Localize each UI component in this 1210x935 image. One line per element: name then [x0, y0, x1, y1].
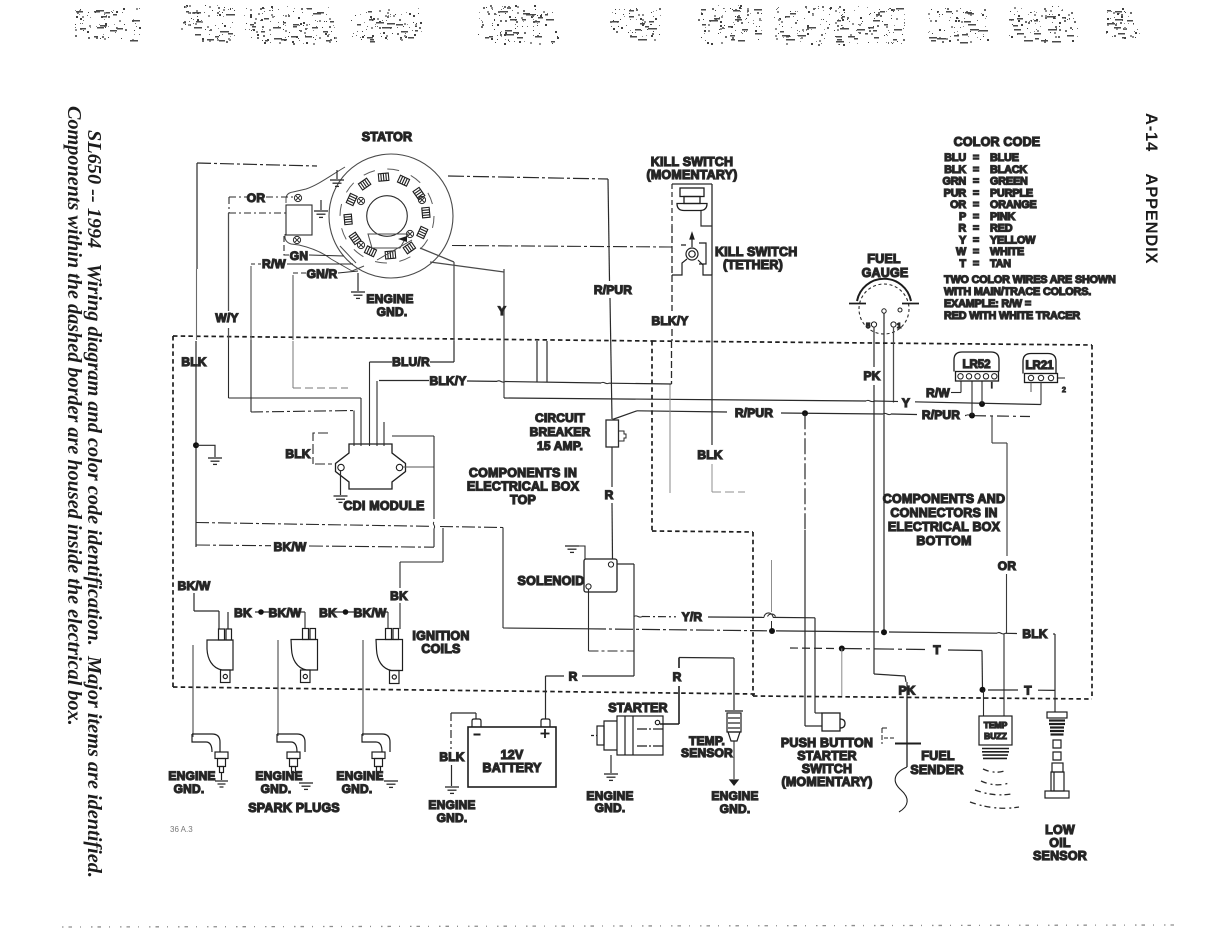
svg-text:Y: Y	[959, 234, 967, 246]
wire BK/W to coil1	[194, 593, 228, 629]
svg-text:BLK: BLK	[181, 355, 206, 369]
svg-text:GN: GN	[290, 249, 308, 263]
circuit breaker tab	[619, 431, 627, 441]
wire R/W in box to CDI pin	[251, 340, 354, 412]
kill switch momentary top wire	[672, 183, 712, 185]
wire BLK bus long	[588, 629, 1055, 712]
svg-text:ENGINE: ENGINE	[366, 292, 413, 306]
coil bus segments with dots	[255, 611, 388, 613]
wire CDI right down	[392, 436, 435, 547]
fuel gauge pins	[871, 308, 902, 327]
svg-text:(MOMENTARY): (MOMENTARY)	[781, 775, 872, 789]
wire starter to temp sensor	[679, 657, 734, 660]
svg-text:ORANGE: ORANGE	[990, 199, 1037, 211]
svg-text:GND.: GND.	[437, 811, 468, 825]
junction dot coil bus 1	[258, 609, 264, 615]
svg-text:=: =	[973, 187, 979, 199]
kill switch tether symbol	[672, 233, 712, 275]
wire CDI ear to right vertical	[403, 466, 434, 468]
svg-text:TOP: TOP	[510, 493, 536, 507]
svg-text:OR: OR	[247, 191, 266, 205]
svg-text:GND.: GND.	[174, 782, 205, 796]
ground CDI	[334, 471, 348, 502]
svg-text:BLU: BLU	[944, 152, 966, 164]
ground starter	[604, 755, 618, 780]
wire down to BLK bus left	[503, 528, 588, 629]
svg-text:=: =	[973, 199, 979, 211]
kill switch momentary button	[677, 188, 707, 211]
svg-text:PUSH BUTTON: PUSH BUTTON	[781, 736, 873, 750]
wire PK from fuel gauge pin 5	[874, 327, 906, 682]
svg-text:Y/R: Y/R	[682, 610, 703, 624]
svg-text:TEMP: TEMP	[984, 720, 1008, 730]
spark plug 1	[192, 734, 228, 787]
svg-text:BOTTOM: BOTTOM	[916, 534, 971, 548]
svg-text:BK: BK	[319, 606, 337, 620]
svg-text:(TETHER): (TETHER)	[723, 258, 783, 272]
ground left BLK	[196, 445, 222, 464]
CDI module body	[336, 444, 406, 489]
svg-text:COLOR CODE: COLOR CODE	[954, 135, 1041, 149]
connector LR52	[954, 352, 999, 381]
svg-text:PURPLE: PURPLE	[990, 187, 1033, 199]
svg-text:R: R	[605, 488, 614, 502]
wire T lower to low oil	[988, 689, 1055, 691]
spark plug wire 1	[192, 645, 194, 737]
wire OR branch down right side	[992, 416, 1007, 633]
wire BLK bracket CDI	[313, 433, 332, 464]
wire LR52 pin3 down	[981, 381, 983, 404]
svg-text:P: P	[959, 211, 966, 223]
ground engine gnd stator	[351, 273, 365, 298]
junction dot R/PUR push button branch	[802, 410, 808, 416]
push button switch box	[822, 713, 845, 731]
temp buzzer box	[979, 716, 1012, 745]
wire top-left to flywheel	[197, 163, 317, 166]
wire kill tether frame right	[711, 184, 713, 275]
svg-text:GND.: GND.	[595, 801, 626, 815]
svg-text:OR: OR	[950, 199, 966, 211]
svg-text:FUEL: FUEL	[921, 749, 955, 763]
svg-text:SL650 -- 1994 Wiring diagram: SL650 -- 1994 Wiring diagram and color c…	[83, 130, 105, 878]
svg-text:5: 5	[866, 321, 870, 330]
wire R starter vertical	[678, 658, 680, 725]
temp buzzer sound waves	[970, 769, 1019, 808]
stator inner circle	[367, 196, 408, 237]
stator coils	[344, 173, 430, 259]
junction dot BLK bus push button	[769, 628, 775, 634]
ignition coil 1	[207, 629, 233, 683]
svg-text:R/W: R/W	[262, 257, 286, 271]
wire R/W	[251, 263, 353, 265]
junction dot BLK ground	[193, 442, 199, 448]
junction dot R/PUR LR52	[969, 413, 975, 419]
svg-text:STARTER: STARTER	[608, 701, 668, 715]
wire breaker to solenoid R	[611, 447, 614, 559]
svg-text:TAN: TAN	[990, 258, 1011, 270]
svg-text:BLK: BLK	[1022, 627, 1047, 641]
battery minus wire	[451, 713, 476, 786]
wire GN	[284, 236, 344, 256]
stator wire exit guide	[368, 234, 408, 248]
wire R/PUR bus	[637, 411, 1030, 417]
svg-text:EXAMPLE: R/W =: EXAMPLE: R/W =	[944, 298, 1031, 310]
svg-text:ENGINE: ENGINE	[255, 769, 302, 783]
stator coil ring arcs	[340, 169, 434, 263]
svg-text:BLK: BLK	[285, 447, 310, 461]
svg-text:BLK/Y: BLK/Y	[430, 374, 467, 388]
svg-text:=: =	[973, 234, 979, 246]
svg-text:ELECTRICAL BOX: ELECTRICAL BOX	[467, 480, 580, 494]
svg-text:SENSOR: SENSOR	[681, 746, 733, 760]
wire BLU/R from stator	[420, 248, 454, 341]
wire BLK/Y kill switch vertical	[671, 275, 674, 384]
wire OR bracket	[229, 197, 295, 213]
wire solenoid bottom lead	[589, 589, 635, 651]
svg-text:=: =	[973, 223, 979, 235]
wire BLK left vertical in box	[195, 341, 197, 547]
svg-text:BK/W: BK/W	[269, 606, 302, 620]
svg-text:BLK: BLK	[697, 448, 722, 462]
battery minus sign	[474, 734, 481, 736]
fuel gauge top arc	[857, 279, 911, 301]
mini ground 2	[299, 783, 313, 789]
fuel sender	[882, 697, 921, 812]
junction dot fuel center pin on BLK bus	[881, 629, 887, 635]
svg-text:R/W: R/W	[926, 386, 950, 400]
battery box	[468, 727, 556, 787]
wire push button YR drop	[815, 618, 822, 713]
wire LR52 pin2 down	[971, 381, 973, 416]
svg-text:OR: OR	[998, 559, 1017, 573]
svg-text:12V: 12V	[501, 748, 524, 762]
svg-text:SWITCH: SWITCH	[802, 762, 853, 776]
svg-text:R/PUR: R/PUR	[735, 406, 773, 420]
svg-text:PK: PK	[863, 369, 880, 383]
svg-text:FUEL: FUEL	[867, 252, 901, 266]
svg-text:BUZZ: BUZZ	[984, 731, 1007, 741]
wire temp sensor drop	[733, 658, 735, 710]
battery plus sign	[541, 729, 550, 738]
connector LR21	[1023, 354, 1065, 383]
svg-text:COILS: COILS	[421, 642, 460, 656]
svg-text:BLUE: BLUE	[990, 152, 1019, 164]
svg-text:BK/W: BK/W	[274, 540, 307, 554]
svg-text:ENGINE: ENGINE	[336, 769, 383, 783]
spark plug wire 2	[277, 640, 279, 736]
svg-text:OIL: OIL	[1049, 836, 1071, 850]
svg-text:PINK: PINK	[990, 211, 1016, 223]
wire R/W stub to LR52 pin1	[951, 381, 961, 393]
svg-text:W: W	[956, 246, 967, 258]
ground battery	[445, 787, 459, 793]
wire BK coil3 top	[400, 528, 443, 629]
ground small near regulator	[314, 200, 328, 217]
svg-text:T: T	[933, 643, 941, 657]
junction dot T	[839, 646, 845, 652]
wire kill BLK to ground bus	[712, 464, 776, 631]
svg-text:GREEN: GREEN	[990, 176, 1028, 188]
svg-text:BLACK: BLACK	[990, 164, 1027, 176]
color code legend	[942, 135, 1115, 322]
ground at stator top	[330, 170, 344, 186]
wire BK/W long	[196, 545, 434, 547]
starter motor	[591, 716, 663, 755]
junction dot T lower	[980, 687, 986, 693]
ignition coil 2	[291, 629, 318, 683]
label Y bus	[898, 396, 915, 408]
svg-text:SENSOR: SENSOR	[1033, 849, 1087, 863]
svg-text:LR52: LR52	[962, 359, 990, 371]
svg-text:RED WITH WHITE TRACER: RED WITH WHITE TRACER	[944, 310, 1080, 322]
scan noise bottom line	[62, 925, 1175, 927]
svg-text:STARTER: STARTER	[797, 749, 857, 763]
wire GN/R vertical into box	[292, 275, 294, 340]
svg-text:GND.: GND.	[377, 305, 408, 319]
solenoid ground	[565, 546, 585, 559]
svg-text:CIRCUIT: CIRCUIT	[535, 411, 586, 425]
wire starter terminal	[660, 723, 679, 725]
svg-text:SENDER: SENDER	[910, 763, 963, 777]
svg-text:=: =	[973, 152, 979, 164]
CDI top pins	[354, 362, 384, 446]
svg-text:CONNECTORS IN: CONNECTORS IN	[890, 506, 997, 520]
svg-text:BK: BK	[234, 606, 252, 620]
wire to coil2 pin	[304, 612, 306, 629]
svg-text:Y: Y	[902, 396, 910, 410]
wire W/Y in box to CDI pin	[229, 340, 362, 398]
wire BLK/Y from CDI	[379, 381, 672, 385]
solenoid body	[584, 559, 617, 592]
svg-text:R/PUR: R/PUR	[922, 408, 960, 422]
stator mount screws	[357, 197, 364, 204]
wire fuel gauge pin1 to Y line	[893, 327, 895, 403]
svg-text:BATTERY: BATTERY	[482, 761, 541, 775]
svg-text:COMPONENTS IN: COMPONENTS IN	[469, 466, 577, 480]
stator flywheel outer circle	[329, 154, 453, 278]
wire LR21 mid pin to Y	[1040, 383, 1042, 405]
svg-text:BK: BK	[390, 589, 408, 603]
svg-text:T: T	[1024, 684, 1032, 698]
regulator screw top	[294, 194, 301, 201]
low oil sensor	[1045, 712, 1069, 798]
svg-text:R: R	[958, 223, 966, 235]
svg-text:CDI MODULE: CDI MODULE	[343, 499, 424, 513]
battery terminals	[472, 719, 481, 727]
svg-text:=: =	[973, 164, 979, 176]
junction dot Y LR52	[979, 401, 985, 407]
svg-text:KILL SWITCH: KILL SWITCH	[715, 245, 798, 259]
svg-text:BLK/Y: BLK/Y	[652, 314, 689, 328]
svg-text:A-14 APPENDIX: A-14 APPENDIX	[1142, 113, 1160, 264]
stator flywheel left housing outline	[285, 167, 412, 271]
stator exit arrow	[398, 236, 407, 242]
svg-text:ELECTRICAL BOX: ELECTRICAL BOX	[888, 520, 1001, 534]
svg-text:BLU/R: BLU/R	[392, 355, 430, 369]
svg-text:GND.: GND.	[720, 802, 751, 816]
wire long dash top	[196, 523, 503, 528]
temp buzzer leads	[984, 634, 1005, 716]
svg-text:1: 1	[897, 321, 901, 330]
wire R/PUR vertical	[608, 179, 637, 420]
svg-text:15 AMP.: 15 AMP.	[537, 439, 583, 453]
svg-text:TWO COLOR WIRES ARE SHOWN: TWO COLOR WIRES ARE SHOWN	[944, 274, 1116, 286]
wire kill tether frame left	[671, 226, 673, 275]
wire kill momentary right lead	[701, 211, 712, 226]
svg-text:=: =	[973, 176, 979, 188]
svg-text:Y: Y	[498, 304, 506, 318]
wire LR21 pin stub	[1030, 383, 1032, 393]
temp sensor symbol	[725, 711, 743, 785]
wire kill momentary left dashed	[671, 184, 673, 226]
wire solenoid right lead	[617, 564, 634, 676]
svg-text:COMPONENTS AND: COMPONENTS AND	[883, 492, 1005, 506]
dashed border electrical box top	[173, 336, 1092, 699]
regulator screw bottom	[293, 236, 300, 243]
svg-text:WITH MAIN/TRACE COLORS.: WITH MAIN/TRACE COLORS.	[944, 286, 1091, 298]
wire Y bus	[504, 398, 1041, 405]
svg-text:LR21: LR21	[1025, 360, 1054, 372]
junction dot coil bus 2	[343, 609, 349, 615]
spark plug wire 3	[362, 640, 364, 736]
svg-text:BLK: BLK	[944, 164, 966, 176]
svg-text:PUR: PUR	[944, 187, 967, 199]
wire R/W vertical into box	[250, 266, 252, 340]
wire BLU/R	[370, 341, 455, 362]
svg-text:ENGINE: ENGINE	[711, 789, 758, 803]
label R/PUR near LR52	[917, 407, 965, 420]
wire Y diagonal from stator	[430, 262, 504, 272]
circuit breaker body	[606, 420, 619, 447]
svg-text:GRN: GRN	[942, 176, 966, 188]
wire Y/R	[634, 613, 815, 618]
wire W/Y vertical	[228, 213, 230, 311]
svg-text:R/PUR: R/PUR	[594, 283, 632, 297]
wire PK drop to fuel sender	[906, 682, 908, 697]
wire GN/R in box dashes	[293, 341, 348, 388]
wire stator top right to R/PUR corner	[448, 176, 608, 179]
svg-text:T: T	[960, 258, 967, 270]
svg-text:BREAKER: BREAKER	[530, 425, 591, 439]
mini ground 3	[384, 781, 398, 787]
spark plug 2	[277, 734, 305, 773]
wire GN/R	[293, 271, 358, 273]
svg-text:=: =	[973, 246, 979, 258]
svg-text:KILL SWITCH: KILL SWITCH	[651, 155, 734, 169]
wire fuel gauge center pin down to BLK bus	[883, 313, 885, 632]
svg-text:BK/W: BK/W	[178, 579, 211, 593]
short stub wires at box top	[536, 341, 538, 383]
svg-text:SOLENOID: SOLENOID	[518, 574, 585, 588]
svg-text:SPARK PLUGS: SPARK PLUGS	[248, 801, 340, 815]
svg-text:=: =	[973, 211, 979, 223]
wire R battery loop	[546, 676, 635, 719]
scan noise top strip	[75, 5, 1140, 46]
temp buzzer grill	[982, 749, 1009, 759]
svg-text:36 A.3: 36 A.3	[170, 825, 193, 834]
CDI ear holes	[338, 464, 344, 470]
wire T bus	[790, 648, 983, 690]
svg-text:R: R	[673, 670, 682, 684]
wire BLK vertical left	[196, 163, 198, 269]
svg-text:Components within the dashed b: Components within the dashed border are …	[63, 106, 85, 726]
wire kill BLK vertical	[711, 275, 713, 445]
wire to coil3 pin	[387, 612, 389, 629]
dashed border electrical box bottom	[753, 696, 1092, 699]
solenoid terminals	[608, 562, 613, 567]
wire T drop	[841, 649, 843, 697]
svg-text:2: 2	[1062, 387, 1066, 394]
svg-text:GND.: GND.	[261, 782, 292, 796]
ignition coil 3	[376, 629, 403, 684]
wire Y from stator	[503, 269, 505, 398]
svg-text:YELLOW: YELLOW	[990, 234, 1036, 246]
spark plug 3	[362, 734, 390, 778]
svg-text:WHITE: WHITE	[990, 246, 1024, 258]
wire push button supply drop	[805, 413, 822, 726]
svg-text:W/Y: W/Y	[215, 311, 238, 325]
svg-text:ENGINE: ENGINE	[428, 798, 475, 812]
svg-text:ENGINE: ENGINE	[168, 769, 215, 783]
svg-text:BK/W: BK/W	[354, 606, 387, 620]
stator regulator plate	[286, 205, 312, 235]
fuel gauge body dashed circle	[859, 284, 909, 334]
svg-text:R: R	[569, 670, 578, 684]
svg-text:=: =	[973, 258, 979, 270]
svg-text:STATOR: STATOR	[362, 130, 413, 144]
svg-text:IGNITION: IGNITION	[412, 629, 469, 643]
svg-text:GN/R: GN/R	[307, 267, 338, 281]
wire stator right mid dash	[452, 246, 672, 248]
svg-text:RED: RED	[990, 223, 1013, 235]
svg-text:(MOMENTARY): (MOMENTARY)	[646, 168, 737, 182]
svg-text:GND.: GND.	[342, 782, 373, 796]
svg-text:BLK: BLK	[439, 750, 464, 764]
wire segment below kill	[669, 384, 671, 493]
svg-text:LOW: LOW	[1045, 823, 1075, 837]
